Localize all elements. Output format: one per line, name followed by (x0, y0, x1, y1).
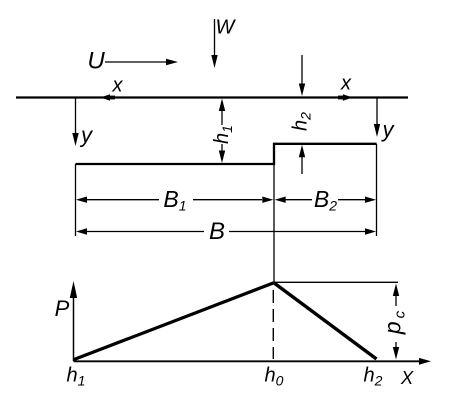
svg-text:U: U (87, 48, 105, 75)
svg-text:pc: pc (380, 310, 409, 335)
pressure axis P (70, 281, 77, 361)
svg-text:B: B (209, 218, 225, 245)
dashed line below peak (272, 290, 274, 359)
svg-text:x: x (340, 73, 352, 95)
svg-text:h2: h2 (364, 365, 383, 389)
dimension h1 upper arrow (219, 99, 225, 126)
velocity arrow U (105, 59, 178, 65)
svg-text:X: X (400, 367, 414, 388)
dimension h2 upper arrow (299, 55, 305, 96)
svg-text:P: P (55, 296, 70, 321)
pressure curve falling side (274, 283, 377, 359)
extension line right (x=376.5) (376, 144, 378, 236)
dimension B1 line (76, 197, 273, 203)
y axis left (72, 98, 78, 146)
svg-text:W: W (216, 17, 237, 39)
svg-text:h1: h1 (67, 365, 86, 389)
pc reference line (horizontal from peak) (275, 281, 398, 283)
y axis right (374, 98, 380, 137)
moving slider surface (top line) (16, 96, 408, 98)
dimension B line (76, 228, 376, 234)
svg-text:B2: B2 (314, 186, 337, 214)
pressure curve rising side (74, 283, 274, 360)
load arrow W (211, 19, 217, 68)
dimension B2 line (275, 197, 376, 203)
extension line left (x=75.5) (75, 164, 77, 236)
svg-text:B1: B1 (163, 186, 186, 214)
X axis (74, 358, 432, 365)
svg-text:x: x (112, 75, 124, 97)
svg-text:h2: h2 (290, 112, 314, 131)
dimension pc upper arrow (393, 284, 399, 307)
extension line center (x=274) (273, 164, 275, 283)
svg-text:y: y (79, 123, 94, 148)
step bearing pad profile (76, 144, 377, 164)
svg-text:y: y (381, 117, 396, 142)
dimension h1 lower arrow (219, 144, 225, 163)
svg-text:h1: h1 (211, 125, 235, 144)
x axis arrow left (on surface) (101, 94, 116, 101)
svg-text:h0: h0 (265, 365, 284, 389)
dimension h2 lower arrow (299, 145, 305, 174)
dimension pc lower arrow (393, 342, 399, 360)
x axis arrow right (on surface) (338, 94, 353, 101)
